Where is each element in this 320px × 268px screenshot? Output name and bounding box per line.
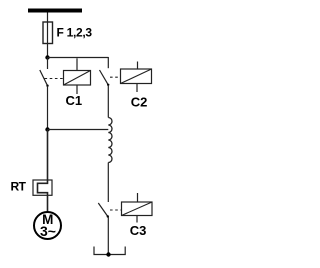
node C (junction dot): [106, 252, 110, 256]
wire: bus to fuse to node A: [47, 13, 49, 58]
contact of contactor C3: [98, 203, 121, 218]
star-point bracket: [94, 247, 125, 255]
wire: top horizontal branch: [48, 57, 109, 59]
contact of contactor C1: [40, 58, 64, 87]
contact of contactor C2: [100, 70, 121, 86]
svg-text:C1: C1: [65, 93, 82, 108]
coil C1: [64, 58, 91, 94]
node A (junction dot): [45, 55, 49, 59]
wire: C2 contact to autotransformer: [107, 85, 109, 118]
svg-text:F 1,2,3: F 1,2,3: [57, 26, 93, 40]
wire: winding down to C3 contact: [107, 163, 109, 203]
supply bus bar: [28, 9, 82, 13]
wire: corner down to C2 contact: [107, 57, 109, 68]
svg-text:C2: C2: [131, 95, 148, 110]
coil C2: [121, 62, 152, 93]
wire: tap from node B to winding: [48, 129, 109, 131]
wire: node B through overload to motor: [38, 130, 48, 213]
autotransformer winding T1: [108, 118, 112, 163]
wire: C3 contact to star point: [107, 217, 109, 255]
svg-text:RT: RT: [11, 180, 27, 194]
motor M 3~: [34, 212, 61, 239]
svg-text:3~: 3~: [40, 223, 56, 239]
coil C3: [122, 193, 153, 223]
fuse F1,2,3: [43, 22, 53, 44]
wire: C1 contact down to node B: [47, 86, 49, 130]
svg-text:C3: C3: [130, 223, 147, 238]
node B (junction dot): [45, 127, 49, 131]
thermal overload relay RT: [33, 180, 52, 195]
